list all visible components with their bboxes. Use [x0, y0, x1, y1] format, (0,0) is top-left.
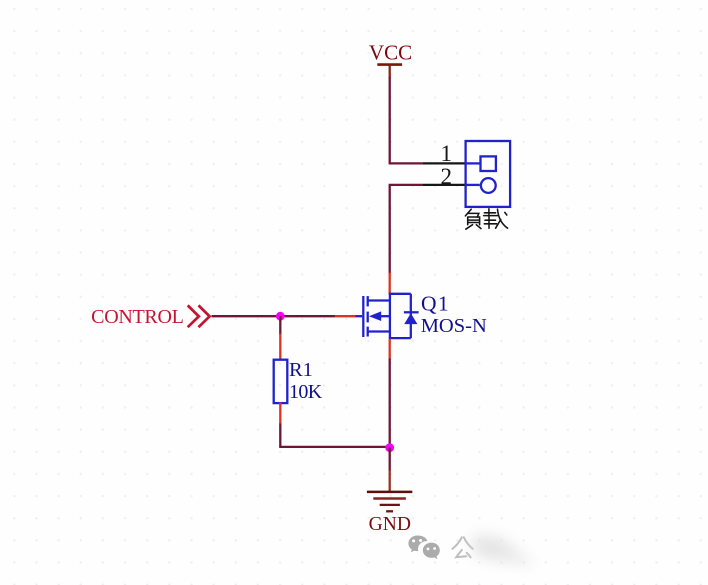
R1 pin 2 red segment	[279, 403, 281, 425]
junction node A	[276, 312, 285, 321]
wire VCC vertical	[389, 77, 391, 163]
svg-text:GND: GND	[369, 514, 411, 535]
R1 pin 1 red segment	[279, 334, 281, 361]
svg-text:Q1: Q1	[421, 291, 450, 315]
watermark WeChat	[408, 534, 536, 566]
transistor Q1	[355, 294, 419, 338]
svg-text:1: 1	[441, 141, 453, 166]
port CONTROL	[91, 305, 209, 328]
power port VCC	[369, 41, 412, 78]
ground pin segment	[389, 470, 391, 491]
pin 2	[423, 164, 467, 189]
svg-text:10K: 10K	[289, 381, 323, 403]
svg-text:CONTROL: CONTROL	[91, 306, 183, 328]
label 负载	[465, 209, 507, 229]
svg-text:VCC: VCC	[369, 41, 412, 65]
junction node B	[385, 443, 394, 452]
svg-text:2: 2	[441, 164, 453, 189]
drain pin red segment	[389, 273, 391, 294]
wire drain vertical	[389, 185, 391, 274]
gate pin red segment	[334, 315, 356, 317]
source pin red segment	[389, 339, 391, 360]
wire to ground	[389, 448, 391, 471]
wire junction to R1	[279, 316, 281, 334]
svg-text:MOS-N: MOS-N	[421, 315, 487, 337]
wire to pin 1	[389, 162, 423, 164]
ground	[367, 492, 412, 535]
wire to pin 2	[389, 184, 423, 186]
wire CONTROL to gate	[212, 315, 335, 317]
wire bottom horizontal	[279, 446, 390, 448]
resistor R1	[274, 360, 288, 403]
pin 1	[423, 141, 467, 166]
wire R1 down	[279, 424, 281, 447]
svg-text:R1: R1	[289, 359, 313, 381]
connector 负载 (load)	[466, 141, 511, 207]
wire source to junction	[389, 359, 391, 449]
